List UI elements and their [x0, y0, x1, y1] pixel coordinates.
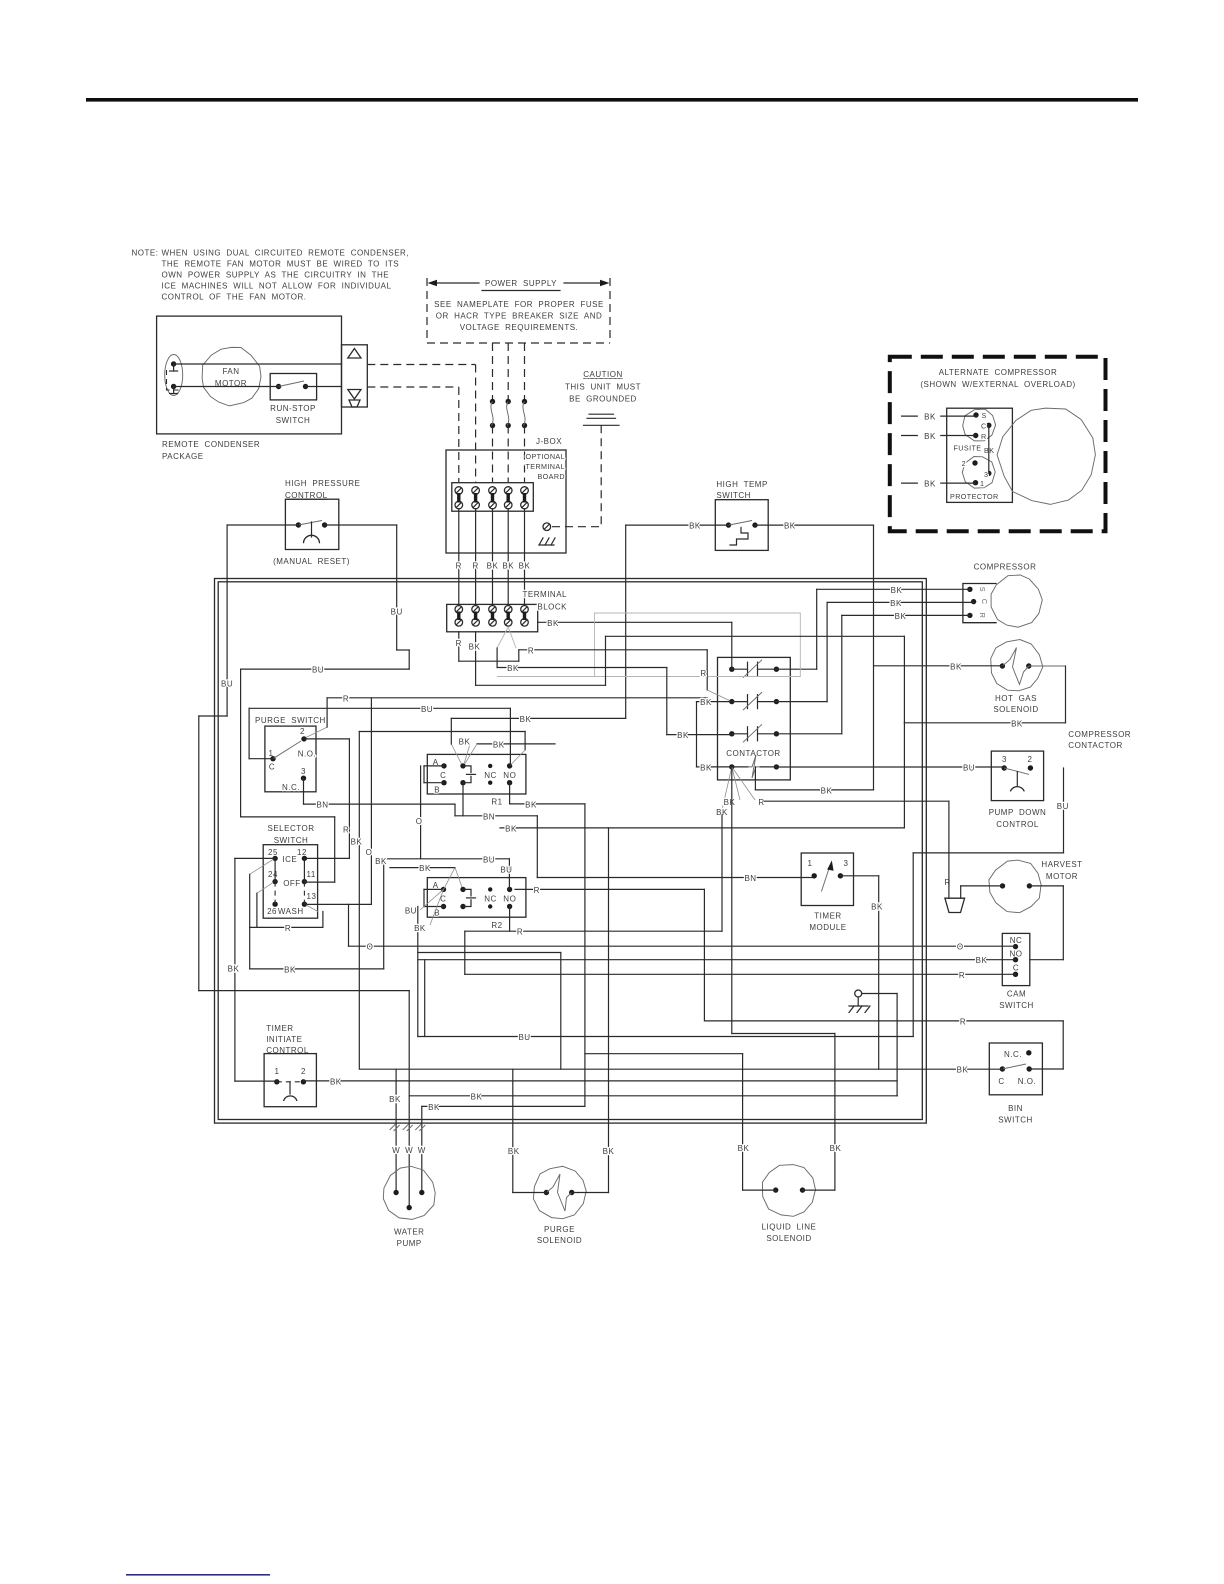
- wire BU drop left of purge: [240, 669, 242, 817]
- svg-text:PACKAGE: PACKAGE: [162, 452, 204, 461]
- svg-text:2: 2: [300, 727, 305, 736]
- page bottom-left blue rule: [126, 1574, 270, 1576]
- wire purge 2 R riser: [348, 739, 350, 859]
- svg-text:NC: NC: [484, 771, 497, 780]
- wire HPC right BU: [325, 524, 397, 526]
- svg-text:BK: BK: [700, 698, 712, 707]
- svg-text:BK: BK: [891, 586, 903, 595]
- svg-text:BN: BN: [483, 812, 495, 821]
- svg-text:BK: BK: [469, 642, 481, 651]
- svg-text:BU: BU: [221, 680, 233, 689]
- svg-text:BK: BK: [976, 956, 988, 965]
- wire BK row y960 to cam NO: [418, 959, 1016, 961]
- contactor contact 1: [729, 667, 734, 672]
- svg-text:COMPRESSOR: COMPRESSOR: [1068, 730, 1131, 739]
- svg-text:BK: BK: [508, 1147, 520, 1156]
- wire row y1106: [422, 1105, 585, 1107]
- svg-text:N.C.: N.C.: [1004, 1050, 1022, 1059]
- svg-text:R: R: [981, 432, 987, 441]
- svg-text:BN: BN: [316, 801, 328, 810]
- wire hot gas right return: [1065, 666, 1067, 723]
- svg-text:OPTIONAL: OPTIONAL: [525, 452, 565, 461]
- wire dashed fan bottom feed: [367, 386, 459, 388]
- svg-text:1: 1: [808, 859, 813, 868]
- contactor K1: [718, 657, 791, 780]
- svg-text:R: R: [978, 613, 987, 619]
- wire dashed fuse F3 to j-box: [524, 426, 526, 483]
- svg-text:O: O: [366, 848, 373, 857]
- svg-text:RUN-STOP: RUN-STOP: [270, 404, 316, 413]
- wire dashed fan top feed: [367, 364, 475, 366]
- optional terminal board TB1: [452, 483, 534, 512]
- terminal block screw 2: [472, 606, 480, 614]
- wire riser x465 to cam C row: [464, 931, 466, 974]
- wire alternate BK 1: [902, 482, 918, 484]
- wire R1 coil top leaders: [451, 744, 461, 764]
- svg-text:BK: BK: [830, 1144, 842, 1153]
- svg-text:3: 3: [301, 767, 306, 776]
- svg-text:R1: R1: [491, 798, 502, 807]
- svg-text:BK: BK: [525, 800, 537, 809]
- wire R row y801 to disconnect: [765, 800, 949, 802]
- terminal block screw 1: [455, 606, 463, 614]
- wire BU riser to R2 NO: [508, 859, 510, 890]
- svg-text:SWITCH: SWITCH: [274, 836, 309, 845]
- wire BN from R1 coil: [462, 783, 464, 816]
- svg-text:SELECTOR: SELECTOR: [268, 824, 315, 833]
- svg-text:2: 2: [301, 1067, 306, 1076]
- svg-text:HIGH PRESSURE: HIGH PRESSURE: [285, 479, 360, 488]
- svg-text:3: 3: [844, 859, 849, 868]
- relay R1 coil: [460, 763, 465, 768]
- svg-text:SEE NAMEPLATE FOR PROPER F: SEE NAMEPLATE FOR PROPER FUSE: [434, 300, 604, 309]
- wire BK row y718: [451, 717, 625, 719]
- svg-text:BK: BK: [677, 731, 689, 740]
- wire BU row y859: [384, 858, 510, 860]
- svg-text:N.O.: N.O.: [1018, 1077, 1036, 1086]
- wire row y1095: [409, 1095, 897, 1097]
- svg-text:FUSITE: FUSITE: [954, 444, 982, 453]
- svg-text:PURGE: PURGE: [544, 1225, 575, 1234]
- outer enclosure box: [215, 579, 927, 1124]
- wire R2 B riser to cam rows: [417, 907, 419, 1037]
- svg-text:3: 3: [984, 470, 988, 479]
- svg-text:ICE MACHINES WILL NOT ALLO: ICE MACHINES WILL NOT ALLOW FOR INDIVIDU…: [162, 282, 392, 291]
- wire R row y931: [465, 930, 722, 932]
- svg-text:BK: BK: [459, 738, 471, 747]
- svg-text:24: 24: [268, 870, 278, 879]
- svg-text:BK: BK: [724, 798, 736, 807]
- water pump M3: [383, 1166, 435, 1219]
- wire ICE row: [304, 857, 349, 859]
- wire BK row to compressor R: [842, 614, 970, 616]
- svg-text:BK: BK: [519, 562, 531, 571]
- svg-text:BLOCK: BLOCK: [537, 603, 567, 612]
- wire gray alt route: [497, 613, 800, 677]
- fan motor: [202, 347, 261, 406]
- wire W riser x422: [421, 1106, 423, 1192]
- liquid line solenoid L3: [762, 1165, 815, 1217]
- svg-text:(SHOWN W/EXTERNAL OVERLOAD): (SHOWN W/EXTERNAL OVERLOAD): [920, 380, 1075, 389]
- svg-text:WATER: WATER: [394, 1228, 425, 1237]
- wire contactor coil right BU to pump down: [776, 766, 1004, 768]
- wire riser x606: [605, 636, 607, 685]
- svg-text:C: C: [981, 422, 987, 431]
- terminal board screw 4: [504, 487, 512, 495]
- svg-text:MODULE: MODULE: [809, 923, 846, 932]
- svg-text:BK: BK: [351, 837, 363, 846]
- svg-text:BE GROUNDED: BE GROUNDED: [569, 395, 637, 404]
- svg-text:ICE: ICE: [282, 855, 297, 864]
- svg-text:TIMER: TIMER: [814, 912, 841, 921]
- svg-text:W: W: [392, 1146, 400, 1155]
- wire purge 2 right: [304, 738, 349, 740]
- wire bin R row: [705, 1020, 1063, 1022]
- svg-text:PROTECTOR: PROTECTOR: [950, 492, 999, 501]
- svg-text:BK: BK: [957, 1066, 969, 1075]
- svg-text:THE REMOTE FAN MOTOR MUST: THE REMOTE FAN MOTOR MUST BE WIRED TO IT…: [162, 260, 400, 269]
- svg-text:BK: BK: [520, 715, 532, 724]
- wire alternate BK R: [902, 435, 918, 437]
- svg-text:B: B: [434, 909, 440, 918]
- svg-text:1: 1: [275, 1067, 280, 1076]
- svg-text:INITIATE: INITIATE: [266, 1035, 302, 1044]
- svg-text:BK: BK: [738, 1144, 750, 1153]
- wire BK row y667: [496, 648, 498, 668]
- svg-text:R2: R2: [491, 921, 502, 930]
- wire alternate C to 3: [988, 425, 990, 473]
- svg-text:J-BOX: J-BOX: [536, 437, 562, 446]
- svg-text:WASH: WASH: [278, 907, 304, 916]
- wire purge solenoid right riser: [608, 828, 610, 1193]
- svg-text:CONTACTOR: CONTACTOR: [1068, 741, 1122, 750]
- svg-text:C: C: [269, 763, 275, 772]
- svg-text:R: R: [959, 971, 965, 980]
- svg-text:1: 1: [980, 479, 984, 488]
- svg-text:C: C: [980, 599, 989, 605]
- border crossing hashes: [390, 1124, 396, 1130]
- wire HPC left outside jog: [199, 715, 227, 717]
- svg-text:BK: BK: [375, 857, 387, 866]
- wire contactor coil drop x732: [731, 767, 733, 1034]
- relay R1: [427, 754, 526, 794]
- wire HTS right drop: [873, 525, 875, 790]
- selector arm 24-26 dashed: [274, 882, 276, 905]
- wire ground to timer row: [862, 993, 897, 995]
- svg-text:WHEN USING DUAL CIRCUITED: WHEN USING DUAL CIRCUITED REMOTE CONDENS…: [162, 249, 410, 258]
- svg-text:NC: NC: [1010, 936, 1023, 945]
- wire riser x705: [703, 889, 705, 1021]
- power supply box: [427, 278, 610, 343]
- terminal block screw 3: [489, 606, 497, 614]
- wire HTS left BK: [626, 524, 729, 526]
- wire O row y946: [349, 945, 1016, 947]
- wire coil-left leaders: [722, 767, 732, 810]
- svg-text:BK: BK: [700, 763, 712, 772]
- svg-text:BU: BU: [963, 764, 975, 773]
- svg-text:ALTERNATE COMPRESSOR: ALTERNATE COMPRESSOR: [939, 368, 1058, 377]
- svg-text:(MANUAL RESET): (MANUAL RESET): [273, 557, 350, 566]
- wire BN row to timer module: [537, 877, 814, 879]
- wire BK riser x359: [358, 732, 360, 1070]
- svg-text:NOTE:: NOTE:: [132, 249, 159, 258]
- remote condenser package box: [157, 316, 342, 434]
- wire HTS right BK: [755, 524, 874, 526]
- wire BU row y1036: [418, 1036, 913, 1038]
- run-stop switch S1: [270, 374, 316, 400]
- svg-text:13: 13: [307, 892, 317, 901]
- svg-text:BK: BK: [505, 824, 517, 833]
- selector arm 12-11: [303, 858, 305, 881]
- svg-text:BK: BK: [389, 1095, 401, 1104]
- wire R1 NO bottom BK: [509, 783, 511, 804]
- wire BK riser to timer initiate: [234, 858, 236, 1081]
- svg-text:R: R: [758, 798, 764, 807]
- wire HPC left BU: [227, 524, 298, 526]
- wire R row y650: [519, 649, 707, 651]
- wire BN riser to timer row: [536, 816, 538, 878]
- svg-text:C: C: [998, 1077, 1004, 1086]
- svg-text:BK: BK: [419, 864, 431, 873]
- svg-text:SWITCH: SWITCH: [276, 416, 311, 425]
- wire harvest right to cam NO: [1029, 885, 1063, 887]
- svg-text:BOARD: BOARD: [537, 472, 565, 481]
- svg-text:R: R: [343, 694, 349, 703]
- svg-text:B: B: [434, 786, 440, 795]
- wire R row y974 to cam C: [465, 973, 1016, 975]
- svg-text:A: A: [433, 881, 439, 890]
- wire BK under terminal block: [475, 632, 477, 686]
- svg-text:BK: BK: [895, 612, 907, 621]
- svg-text:R: R: [960, 1017, 966, 1026]
- svg-text:TIMER: TIMER: [266, 1024, 293, 1033]
- svg-text:PUMP: PUMP: [397, 1239, 422, 1248]
- svg-text:BK: BK: [487, 562, 499, 571]
- svg-text:CAM: CAM: [1007, 990, 1026, 999]
- wire purge 3 BN drop: [303, 778, 305, 804]
- wire W riser x396: [395, 1069, 397, 1192]
- relay R2 left bracket: [424, 888, 444, 890]
- svg-text:NO: NO: [503, 771, 516, 780]
- svg-text:BK: BK: [871, 902, 883, 911]
- terminal board screw 2: [472, 487, 480, 495]
- fuse F3: [522, 399, 527, 404]
- svg-text:W: W: [405, 1146, 413, 1155]
- svg-text:BK: BK: [330, 1078, 342, 1087]
- svg-text:R: R: [472, 562, 478, 571]
- selector leaders: [250, 860, 273, 875]
- wire dashed supply L1: [492, 343, 494, 400]
- wire timer module 3 BK: [840, 875, 878, 877]
- selector arm 11-13 dashed: [303, 882, 305, 905]
- wire long riser x585: [584, 804, 586, 1106]
- svg-text:BK: BK: [821, 786, 833, 795]
- terminal board screw 1: [455, 487, 463, 495]
- svg-text:R: R: [944, 878, 950, 887]
- svg-text:BK: BK: [228, 964, 240, 973]
- selector arm 25-24: [274, 858, 276, 881]
- wire R row under selector: [250, 926, 323, 928]
- wire R to disconnect: [948, 801, 950, 898]
- svg-text:BU: BU: [421, 705, 433, 714]
- terminal block screw 5: [521, 606, 529, 614]
- wire selector 25 left: [235, 857, 275, 859]
- svg-text:N.C.: N.C.: [282, 783, 300, 792]
- svg-text:O: O: [957, 943, 964, 952]
- earth ground symbol: [589, 413, 614, 415]
- svg-text:R: R: [456, 562, 462, 571]
- wire outside return row y991: [199, 990, 409, 992]
- wire BK riser x722: [721, 815, 723, 931]
- svg-text:FAN: FAN: [222, 367, 239, 376]
- wire timer initiate left: [235, 1080, 277, 1082]
- svg-text:3: 3: [1002, 755, 1007, 764]
- svg-text:BU: BU: [518, 1033, 530, 1042]
- pump down control PDC: [991, 751, 1043, 801]
- svg-text:SWITCH: SWITCH: [998, 1116, 1033, 1125]
- wire BK row y828: [500, 827, 904, 829]
- terminal board screw 3: [489, 487, 497, 495]
- svg-text:BK: BK: [784, 522, 796, 531]
- wire dashed earth to j-box ground: [600, 425, 602, 526]
- svg-text:BU: BU: [1057, 802, 1069, 811]
- svg-text:W: W: [418, 1146, 426, 1155]
- svg-text:BK: BK: [924, 480, 936, 489]
- wire dashed fuse F2 to j-box: [507, 426, 509, 483]
- svg-text:BK: BK: [950, 662, 962, 671]
- wire BK row y685: [476, 684, 606, 686]
- wire row y952: [418, 952, 561, 954]
- svg-text:R: R: [517, 928, 523, 937]
- wire contactor left bracket BK: [697, 701, 732, 703]
- svg-text:BK: BK: [471, 1092, 483, 1101]
- svg-text:2: 2: [1028, 755, 1033, 764]
- svg-text:HIGH TEMP: HIGH TEMP: [716, 480, 767, 489]
- svg-text:PURGE SWITCH: PURGE SWITCH: [255, 716, 326, 725]
- svg-text:R: R: [343, 826, 349, 835]
- wire purge solenoid stubs: [513, 1192, 547, 1194]
- svg-text:BK: BK: [547, 619, 559, 628]
- wire HTS left drop: [625, 525, 627, 718]
- wire R1 A drop to BU row: [420, 766, 422, 859]
- wire BK row y636 to hot gas: [606, 635, 905, 637]
- wire bin BK row: [360, 1068, 1002, 1070]
- wire R row y698: [327, 697, 707, 699]
- wire dashed supply L3: [524, 343, 526, 400]
- wire R2 coil top leaders: [420, 889, 444, 910]
- j-box chassis ground symbol: [539, 538, 555, 545]
- svg-text:BU: BU: [391, 608, 403, 617]
- svg-text:CONTROL: CONTROL: [996, 820, 1039, 829]
- svg-text:BK: BK: [603, 1147, 615, 1156]
- svg-text:BK: BK: [924, 432, 936, 441]
- svg-text:BIN: BIN: [1008, 1104, 1023, 1113]
- wire hot gas left BK: [874, 665, 1003, 667]
- svg-text:HARVEST: HARVEST: [1041, 860, 1082, 869]
- terminal block TB2: [447, 604, 538, 631]
- svg-text:COMPRESSOR: COMPRESSOR: [974, 563, 1037, 572]
- wire BU to R1 NO riser: [509, 708, 511, 766]
- wire BU row y669: [241, 668, 410, 670]
- svg-text:R: R: [285, 924, 291, 933]
- fuse F2: [506, 399, 511, 404]
- wire BN row y804: [304, 803, 456, 805]
- timer module arrow: [821, 864, 830, 892]
- svg-text:C: C: [440, 771, 446, 780]
- wires j-box terminals down to terminal block: [458, 509, 460, 606]
- svg-text:OFF: OFF: [283, 879, 301, 888]
- svg-text:25: 25: [268, 848, 278, 857]
- connector J1: [342, 345, 368, 407]
- quick disconnect plug: [945, 898, 965, 912]
- wire timer initiate BK row: [303, 1080, 897, 1082]
- svg-text:OWN POWER SUPPLY AS THE C: OWN POWER SUPPLY AS THE CIRCUITRY IN THE: [162, 271, 390, 280]
- svg-text:BU: BU: [500, 865, 512, 874]
- inner enclosure box: [218, 582, 922, 1120]
- page top rule: [86, 98, 1138, 102]
- wire dashed fuse F1 to j-box: [492, 426, 494, 483]
- svg-text:BK: BK: [1011, 719, 1023, 728]
- timer module TM: [801, 853, 853, 906]
- terminal board screw 5: [521, 487, 529, 495]
- wire fan motor top: [174, 363, 342, 365]
- relay R2 coil: [460, 887, 465, 892]
- svg-text:12: 12: [297, 848, 307, 857]
- alternate compressor terminal box: [947, 408, 1013, 502]
- svg-text:26: 26: [267, 907, 277, 916]
- wire dashed supply L2: [507, 343, 509, 400]
- fusite terminals: [963, 409, 996, 441]
- alternate compressor shell: [997, 408, 1095, 504]
- wire long row y731 to R1 NO: [359, 731, 525, 733]
- wire R under terminal block: [458, 632, 460, 661]
- wire R2 NO bottom: [509, 907, 511, 932]
- svg-text:MOTOR: MOTOR: [1046, 872, 1078, 881]
- wire run-stop to connector: [306, 386, 342, 388]
- svg-text:HOT GAS: HOT GAS: [995, 694, 1037, 703]
- svg-text:LIQUID LINE: LIQUID LINE: [762, 1223, 817, 1232]
- wire BK riser x384: [383, 859, 385, 969]
- svg-text:R: R: [700, 669, 706, 678]
- svg-text:O: O: [416, 817, 423, 826]
- svg-text:S: S: [978, 587, 987, 592]
- wire alternate BK S: [902, 415, 918, 417]
- wire BK stub y744: [477, 743, 555, 745]
- wire OFF row right: [304, 881, 334, 883]
- terminal block screw 4: [504, 606, 512, 614]
- wire BK row to compressor C: [827, 601, 974, 603]
- svg-text:THIS UNIT MUST: THIS UNIT MUST: [565, 383, 641, 392]
- wire bin right into NO: [1029, 1068, 1063, 1070]
- contactor contact 2: [729, 699, 734, 704]
- wire W riser x409: [408, 991, 410, 1208]
- svg-text:BK: BK: [284, 965, 296, 974]
- wire BK purge-C row y969: [250, 968, 384, 970]
- fuse F1: [490, 399, 495, 404]
- wire fan motor bottom to run-stop: [174, 386, 279, 388]
- svg-text:SOLENOID: SOLENOID: [993, 705, 1038, 714]
- svg-text:REMOTE CONDENSER: REMOTE CONDENSER: [162, 440, 260, 449]
- wire BU row y708: [249, 707, 510, 709]
- svg-text:BU: BU: [405, 907, 417, 916]
- svg-text:CONTROL OF THE FAN MOTOR.: CONTROL OF THE FAN MOTOR.: [162, 293, 307, 302]
- wire BK row to compressor S: [817, 588, 970, 590]
- wire WASH row right: [304, 903, 371, 905]
- svg-text:R: R: [534, 886, 540, 895]
- svg-text:BU: BU: [312, 666, 324, 675]
- protector terminals: [962, 457, 995, 489]
- wire BK row terminal block to contactor: [538, 621, 732, 623]
